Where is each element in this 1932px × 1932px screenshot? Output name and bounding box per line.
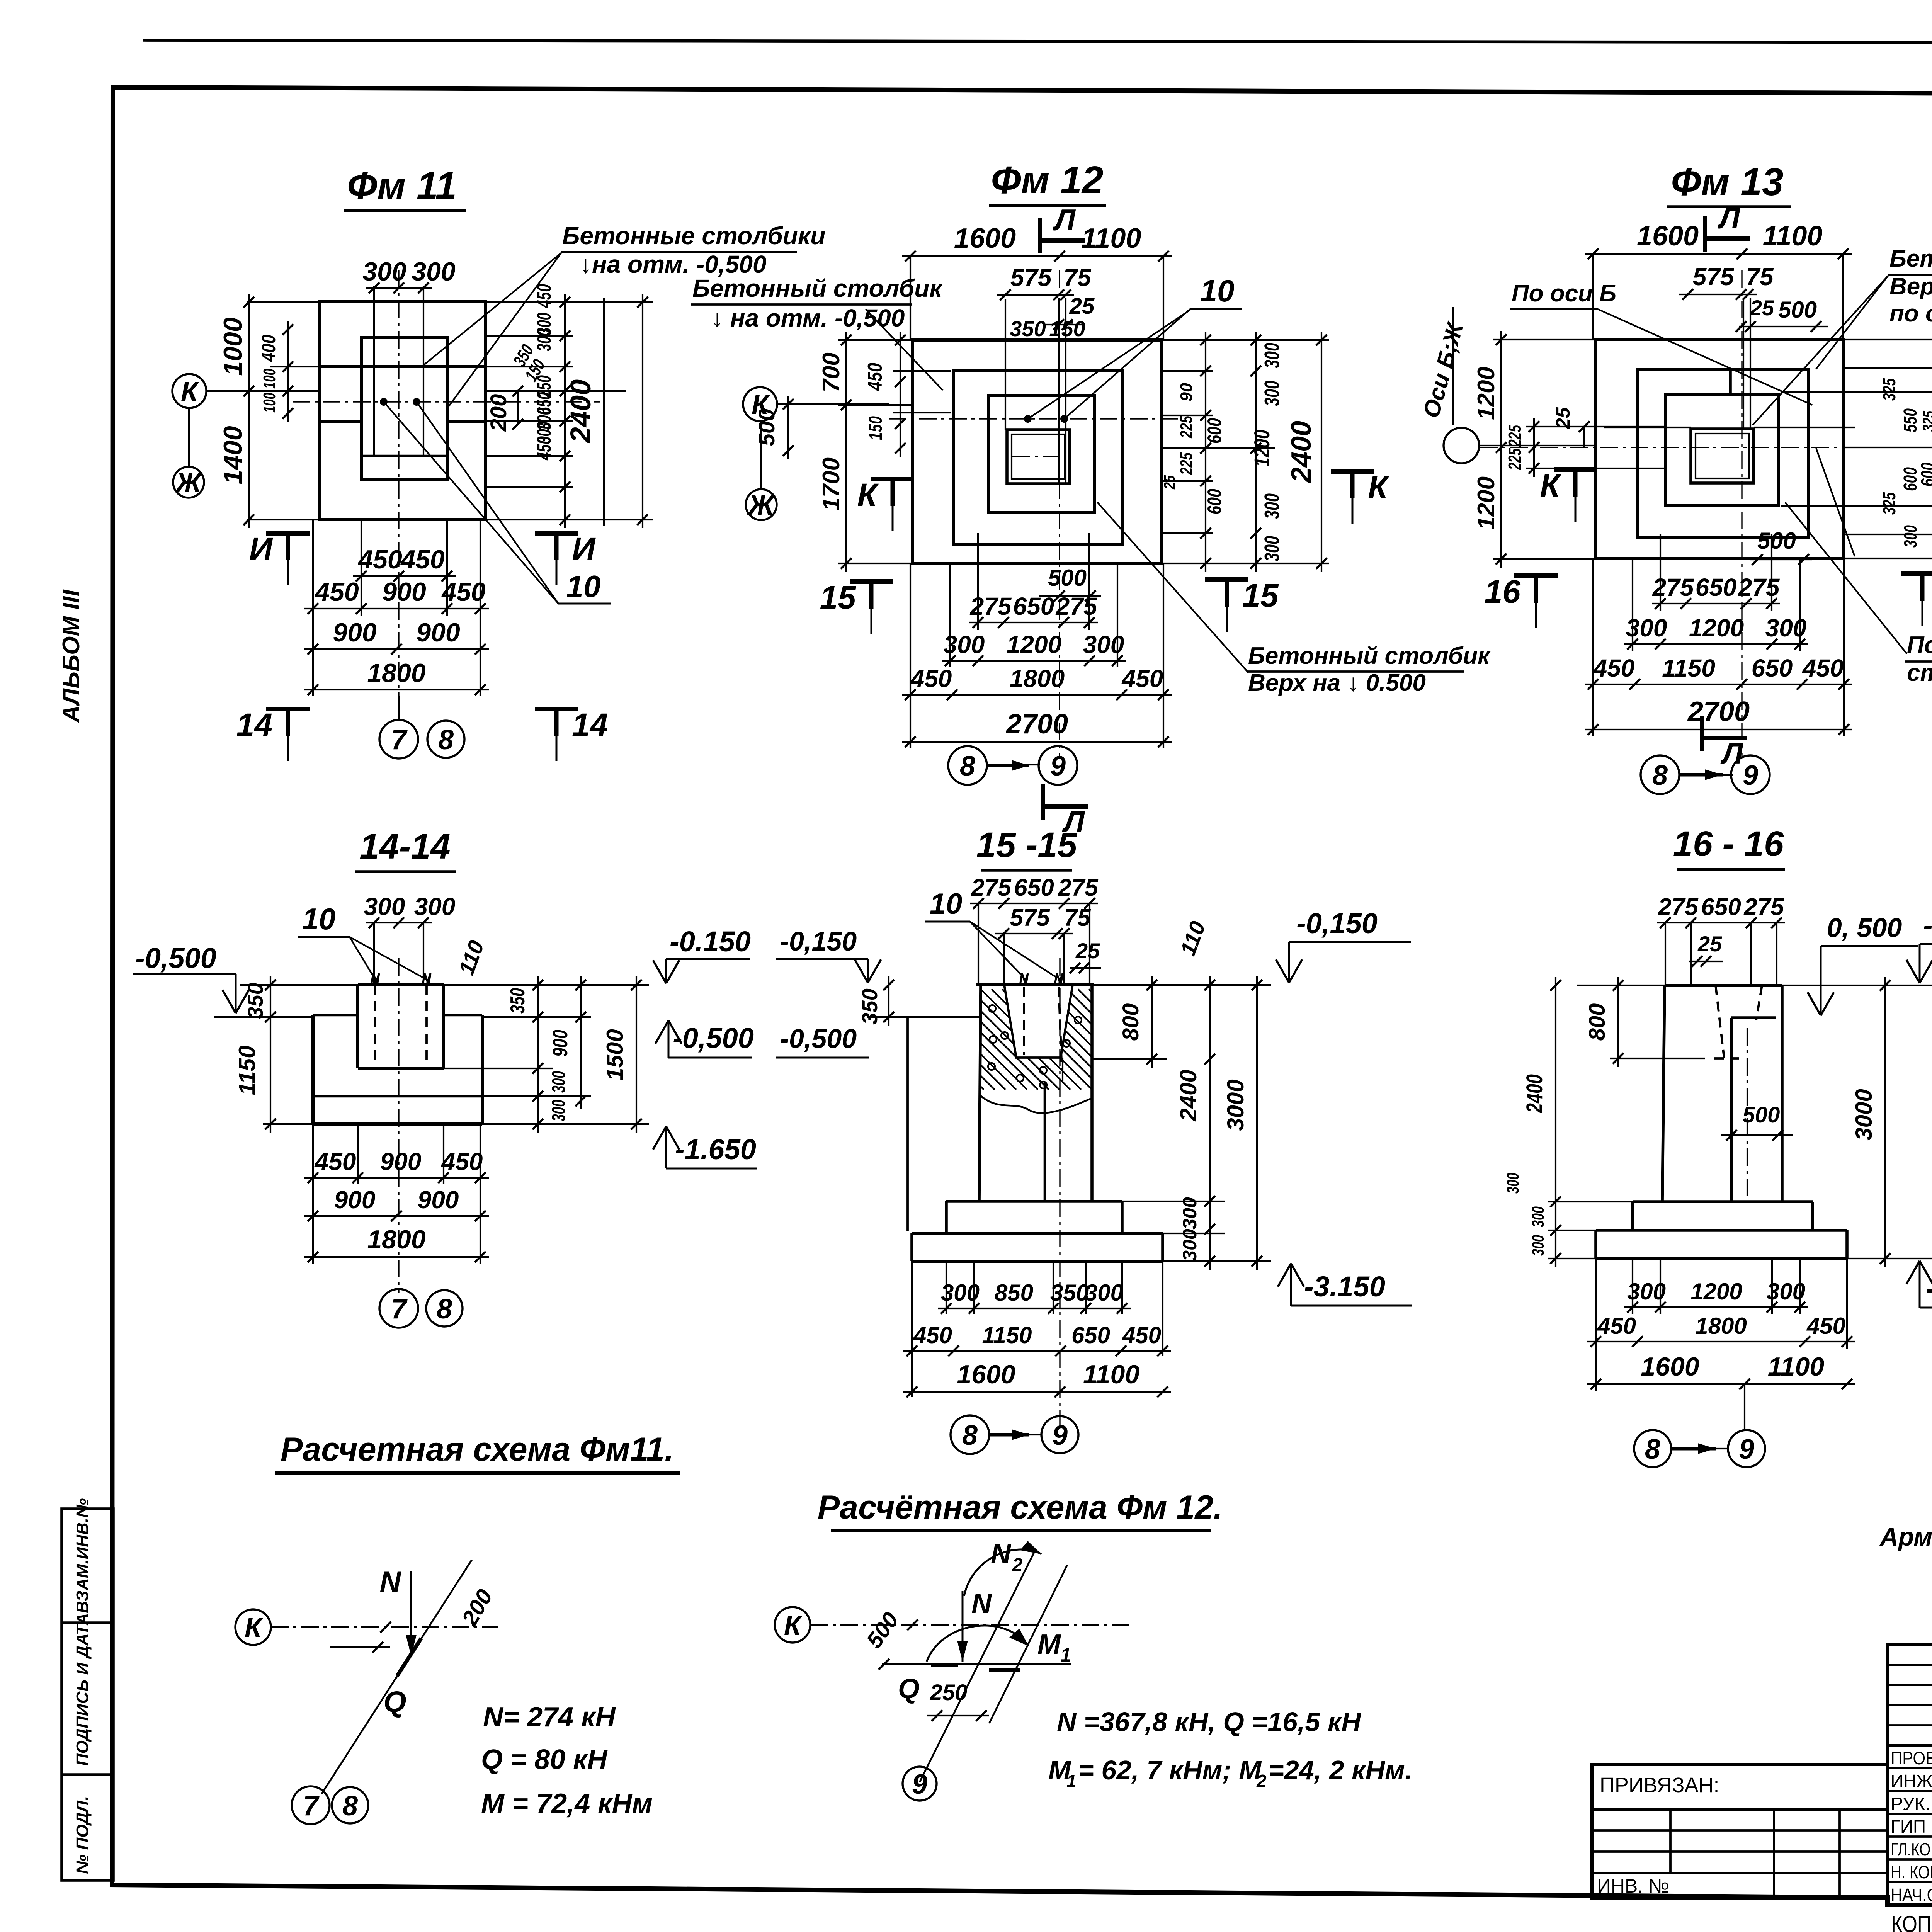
FM13 axis 8 9 [1641,755,1679,794]
svg-text:300: 300 [1529,1206,1548,1227]
svg-text:М: М [1037,1629,1061,1660]
S16 center vline [1744,1384,1745,1430]
svg-text:1150: 1150 [234,1045,260,1095]
svg-text:450: 450 [1121,665,1163,692]
svg-text:N: N [380,1566,402,1599]
svg-text:8: 8 [1645,1434,1660,1465]
S15 top line [976,983,1094,986]
svg-text:225: 225 [1505,448,1525,470]
svg-text:-1.650: -1.650 [675,1133,756,1165]
FM11 mark 14 right [535,707,578,711]
SC12 N arrow [962,1591,964,1662]
svg-text:1100: 1100 [1768,1352,1824,1381]
svg-text:300: 300 [1765,614,1807,642]
svg-text:1: 1 [1066,1771,1077,1791]
svg-text:300: 300 [362,257,406,286]
svg-text:НАЧ.ОТД: НАЧ.ОТД [1891,1885,1932,1905]
S14 left ext [240,984,358,986]
svg-text:ПОДПИСЬ И ДАТА: ПОДПИСЬ И ДАТА [73,1613,92,1766]
svg-text:1800: 1800 [1695,1313,1747,1339]
svg-text:Расчетная схема Фм11.: Расчетная схема Фм11. [281,1431,674,1468]
svg-text:450: 450 [533,436,555,461]
S16 dim top [1657,922,1785,923]
svg-text:75: 75 [1064,905,1091,931]
S15 dim row b3 [903,1391,1171,1393]
S15 dim row t2 [995,933,1073,934]
FM11 dim left 1000 1400 [248,294,250,528]
S15 dim 300s [1209,1193,1211,1270]
FM11 bolt dot 2 [413,398,420,406]
FM11 dim row4 1800 [304,689,489,690]
svg-text:Н. КОНТР: Н. КОНТР [1891,1862,1932,1882]
svg-text:И: И [572,531,596,567]
S14 ledge [313,1014,358,1017]
svg-text:1150: 1150 [1662,654,1715,682]
svg-text:ПРИВЯЗАН:: ПРИВЯЗАН: [1600,1774,1719,1797]
svg-text:300: 300 [533,329,555,351]
S15 hatch dots [988,1005,1082,1088]
FM11 outer rect [319,302,486,520]
S14 slab line [313,1095,482,1098]
svg-text:2400: 2400 [1522,1074,1547,1113]
S14 dim row2 [304,1215,489,1217]
FM12 bolt dot 1 [1024,415,1032,423]
FM12 mark K right [1331,469,1374,474]
svg-text:300: 300 [1900,525,1920,548]
svg-text:300: 300 [1626,614,1667,642]
FM11 right ext lines [486,301,653,303]
svg-text:450: 450 [913,1322,952,1348]
svg-text:300: 300 [364,893,405,920]
FM13 dim top 1600 1100 [1585,253,1852,255]
S16 right ext [1782,985,1932,986]
FM13 note leaders [1753,276,1888,425]
svg-text:Q: Q [898,1673,920,1704]
svg-text:25: 25 [1075,939,1100,963]
S14 axis 7 8 [379,1289,418,1328]
svg-text:-3.150: -3.150 [1304,1270,1385,1303]
svg-text:И: И [249,531,273,567]
S15 dim row b1 [938,1308,1131,1309]
svg-text:8: 8 [1652,760,1668,791]
svg-text:=24, 2 кНм.: =24, 2 кНм. [1268,1755,1412,1785]
svg-text:-0,500: -0,500 [780,1024,857,1054]
svg-text:300: 300 [1260,536,1284,561]
svg-text:Бетонный столбик: Бетонный столбик [692,274,943,302]
svg-text:К: К [857,477,879,513]
S15 right ext [1092,984,1271,986]
svg-text:К: К [181,376,200,407]
svg-text:325: 325 [1879,492,1899,515]
S14 right ext [444,984,649,986]
svg-text:8: 8 [962,1420,978,1451]
svg-text:столбик не выполнять: столбик не выполнять [1907,660,1932,686]
svg-text:25: 25 [1697,932,1722,956]
S15 dim 800 [1151,976,1153,1068]
svg-text:900: 900 [416,618,460,647]
S16 dim 800L [1617,977,1619,1067]
svg-text:200: 200 [486,394,511,432]
S16 pedestal [1731,1016,1776,1019]
svg-text:450: 450 [441,1148,483,1175]
svg-text:К: К [245,1612,264,1643]
svg-text:ИНВ. №: ИНВ. № [1597,1875,1669,1897]
svg-text:800: 800 [1118,1003,1143,1041]
svg-text:1000: 1000 [218,317,248,376]
svg-text:450: 450 [1122,1322,1161,1348]
svg-text:9: 9 [1050,751,1066,782]
FM11 dim row1 450 450 [353,575,456,577]
S15 rebar1 [1023,987,1025,1055]
FM13 L mark bottom [1700,716,1704,751]
svg-text:2: 2 [1256,1771,1267,1791]
S15 axis 8 9 [951,1415,989,1454]
FM12 bolt vlines [1058,298,1060,484]
FM12 bottom ext [910,563,911,748]
svg-text:300: 300 [412,257,456,286]
svg-text:900: 900 [334,1186,376,1214]
FM13 axis circle [1444,428,1479,463]
svg-text:300: 300 [549,1071,569,1093]
FM12 brace leader [1097,502,1248,672]
svg-text:225: 225 [1177,416,1196,439]
SC12 N2 arc [964,1549,1041,1596]
svg-text:16 - 16: 16 - 16 [1673,824,1784,864]
svg-text:575: 575 [1010,264,1052,291]
svg-text:450: 450 [1802,654,1844,682]
svg-text:450: 450 [441,577,486,607]
svg-text:7: 7 [391,1294,408,1325]
FM11 left ext lines [247,301,321,303]
svg-text:8: 8 [960,751,975,782]
S16 axis 8 9 [1634,1430,1671,1467]
FM11 mark I right [535,531,578,536]
S15 inner col [1044,1082,1046,1201]
FM11 bolt dot 1 [380,398,388,406]
privyazan box [1592,1764,1888,1809]
svg-text:225: 225 [1505,425,1525,447]
FM13 bottom ext [1592,558,1594,736]
svg-text:1200: 1200 [1007,631,1061,658]
svg-text:Q: Q [383,1685,406,1718]
SC11 axis 7 8 [292,1786,330,1824]
svg-text:25: 25 [1161,475,1178,489]
FM13 mark K left [1554,467,1597,472]
SC11 diagonal [321,1560,472,1794]
FM13 right ext [1843,339,1932,340]
svg-text:300: 300 [1260,343,1284,368]
svg-text:1: 1 [1060,1644,1071,1666]
FM12 right dim A [1205,332,1206,572]
svg-text:300: 300 [1179,1229,1201,1261]
svg-text:2700: 2700 [1687,696,1750,727]
S16 left ext2 [1548,1201,1633,1202]
svg-text:ГЛ.КОНТР: ГЛ.КОНТР [1891,1839,1932,1859]
svg-text:650: 650 [1013,592,1054,620]
svg-text:1600: 1600 [954,223,1016,254]
svg-text:500: 500 [1743,1102,1780,1128]
svg-text:10: 10 [930,888,963,920]
FM13 horiz centerline [1480,447,1862,448]
svg-text:350: 350 [1010,316,1046,341]
SC12 diagonals [920,1549,1036,1782]
FM11 right dim line A [564,294,566,528]
svg-text:1100: 1100 [1083,1360,1139,1389]
FM13 dim 575 75 [1679,294,1757,295]
svg-text:275: 275 [1738,573,1780,601]
FM12 dim row2 [942,660,1126,662]
svg-text:Бетонный столбик: Бетонный столбик [1248,643,1491,669]
FM11 bolt line 2 [423,286,424,456]
svg-text:75: 75 [1746,263,1774,291]
FM13 mark 16 left [1514,573,1558,578]
svg-text:325: 325 [1879,378,1899,401]
svg-text:1100: 1100 [1082,223,1141,254]
FM13 rect2 [1638,369,1808,538]
FM12 axis Zh [746,489,777,520]
S14 dim row1 [304,1177,489,1179]
svg-text:Верх на ↓ 0.500: Верх на ↓ 0.500 [1248,670,1426,696]
svg-text:10: 10 [1200,274,1235,308]
svg-text:По оси Б: По оси Б [1512,280,1616,307]
svg-text:300: 300 [549,1100,569,1121]
stamp small rows [1888,1664,1932,1666]
svg-text:Фм 11: Фм 11 [347,164,457,207]
svg-text:850: 850 [995,1280,1033,1306]
FM11 axis K [172,374,206,408]
svg-text:Л: Л [1720,736,1743,770]
SC12 ground marks [931,1664,958,1667]
svg-text:350: 350 [1050,1280,1089,1306]
FM12 dim row4 [902,741,1172,743]
svg-text:450: 450 [1806,1313,1845,1339]
SC12 M1 arc [927,1626,1029,1662]
svg-text:300: 300 [1179,1197,1201,1230]
FM11 dim 300 300 [366,287,432,289]
FM12 dim row3 [902,694,1172,696]
svg-text:Ж: Ж [747,490,776,521]
svg-text:275: 275 [1658,894,1699,920]
FM13 left dim 225 225 [1533,418,1535,477]
S14 right dim C [636,976,637,1133]
SC12 axis 9 [903,1767,937,1801]
FM12 horiz centerline [889,418,1179,419]
svg-text:3000: 3000 [1223,1079,1248,1131]
svg-text:300: 300 [1503,1173,1522,1194]
S14 inner line [358,1067,444,1070]
S15 pier sides [979,985,981,1201]
svg-text:600: 600 [1900,467,1921,491]
svg-text:9: 9 [1052,1420,1068,1451]
svg-text:450: 450 [1597,1313,1636,1339]
S14 bottom ext [312,1124,314,1264]
svg-text:КОПИРОВАЛ: ЛОГИНОВА: КОПИРОВАЛ: ЛОГИНОВА [1891,1911,1932,1932]
FM12 anchor sq [1007,430,1070,484]
svg-text:ВЗАМ.ИНВ.№: ВЗАМ.ИНВ.№ [73,1498,92,1613]
svg-text:2400: 2400 [1286,421,1317,483]
svg-text:8: 8 [438,724,454,755]
S16 dim row b2 [1587,1341,1855,1342]
svg-text:900: 900 [333,618,377,647]
S14 centerline [398,958,399,1293]
FM13 left ext [1493,339,1595,340]
svg-text:N =367,8 кН, Q =16,5 кН: N =367,8 кН, Q =16,5 кН [1057,1707,1361,1737]
S15 dim row b2 [903,1350,1171,1352]
S15 rebar2 [1059,987,1062,1070]
svg-text:300: 300 [1085,1280,1123,1306]
svg-text:14: 14 [236,707,272,743]
svg-text:-0,500: -0,500 [673,1022,754,1054]
svg-text:275: 275 [971,874,1012,901]
FM12 mark 15 right [1205,577,1248,582]
svg-text:Бетанный столбик: Бетанный столбик [1889,245,1932,272]
FM13 dim row4 [1585,729,1852,730]
svg-text:= 62, 7 кНм; М: = 62, 7 кНм; М [1078,1755,1262,1785]
svg-text:325: 325 [1919,411,1932,432]
svg-text:1200: 1200 [1250,430,1274,467]
FM13 note br leader [1785,502,1907,654]
FM11 band line bottom [361,455,447,457]
svg-text:300: 300 [1529,1235,1548,1256]
FM11 axis 7 8 [398,696,400,719]
FM12 L mark bottom [1041,784,1045,820]
S15 bottom ext [946,1261,947,1314]
svg-text:900: 900 [382,577,426,607]
FM12 axis K [743,387,777,421]
FM12 mark K left [871,477,914,481]
S16 slab [1596,1229,1847,1232]
svg-text:-0.150: -0.150 [670,925,751,957]
FM13 mark 16 right [1901,571,1932,576]
S16 bottom ext [1632,1259,1633,1314]
FM11 bolt line 1 [373,286,375,456]
S16 dim row b3 [1587,1383,1855,1385]
FM13 rect3 [1665,394,1778,505]
FM11 dim right 2400 [642,294,643,528]
S14 rebar 2 [425,985,428,1066]
S16 dim 3000R [1884,977,1886,1267]
FM11 mark I left [266,531,310,536]
svg-text:225: 225 [1177,452,1196,475]
svg-text:1600: 1600 [957,1360,1015,1389]
svg-text:250: 250 [930,1680,968,1705]
FM11 bottom ext lines [312,520,314,696]
S15 dim 3000 [1256,976,1258,1270]
FM11 dim row3 900 900 [304,648,489,650]
svg-text:1200: 1200 [1473,476,1500,530]
S14 left dim [270,976,271,1133]
FM13 dim row3 [1585,684,1852,685]
FM12 mark 15 left [850,579,893,584]
svg-text:600: 600 [1204,418,1225,444]
svg-text:15: 15 [820,579,857,616]
FM12 vert centerline [1059,270,1060,757]
FM13 vert centerline [1741,270,1742,757]
svg-text:1400: 1400 [218,426,248,484]
left stamp strip box [62,1509,113,1880]
lower table [1592,1809,1888,1898]
svg-text:ПРОВЕР.: ПРОВЕР. [1891,1748,1932,1768]
svg-text:300: 300 [1083,631,1124,658]
S15 pocket [1004,985,1073,1058]
svg-text:Расчётная схема Фм 12.: Расчётная схема Фм 12. [818,1489,1223,1526]
svg-text:ИНЖЕН.: ИНЖЕН. [1891,1771,1932,1791]
svg-text:Бетонные столбики: Бетонные столбики [562,222,825,250]
svg-text:450: 450 [314,577,359,607]
svg-text:АЛЬБОМ III: АЛЬБОМ III [58,589,85,723]
svg-text:2400: 2400 [565,379,597,444]
FM12 left ext lines [838,339,913,341]
svg-text:9: 9 [1743,760,1758,791]
svg-text:Ж: Ж [174,468,203,498]
svg-text:600: 600 [1204,489,1225,514]
FM13 dim row1 [1652,603,1780,604]
svg-text:1600: 1600 [1637,221,1699,252]
svg-text:15 -15: 15 -15 [976,825,1078,865]
S16 rebar2 [1756,985,1762,1020]
svg-text:900: 900 [418,1186,459,1214]
svg-text:150: 150 [866,416,886,440]
svg-text:1700: 1700 [818,457,845,511]
S14 column [356,985,359,1068]
FM13 bolt vlines [1743,298,1744,429]
SC11 axis K [235,1609,271,1645]
svg-text:7: 7 [391,724,408,755]
FM13 outer rect [1595,340,1843,558]
svg-text:650: 650 [1071,1322,1110,1348]
S16 step [1633,1200,1813,1203]
svg-text:N= 274 кН: N= 274 кН [483,1702,616,1733]
svg-text:0, 500: 0, 500 [1827,913,1902,943]
svg-text:550: 550 [1900,408,1921,432]
S15 dim 2400 [1209,976,1211,1210]
svg-text:650: 650 [1752,654,1793,682]
svg-text:300: 300 [1627,1279,1666,1304]
FM12 dim row1 [969,622,1098,623]
svg-text:ГИП: ГИП [1891,1816,1926,1837]
S15 dim row t1 [970,903,1098,904]
svg-text:1800: 1800 [1010,665,1065,692]
svg-text:350: 350 [507,988,529,1014]
svg-text:650: 650 [1014,874,1054,901]
S15 top ext lines [978,903,979,985]
S14 rebar 1 [374,985,376,1066]
svg-text:300: 300 [944,631,985,658]
S16 left ext [1577,985,1665,986]
FM12 note leader [866,309,943,390]
S15 break line [981,1096,1092,1113]
S16 dim 2400L [1555,977,1556,1267]
svg-text:450: 450 [400,545,445,574]
svg-text:3000: 3000 [1851,1089,1877,1140]
svg-text:25: 25 [1750,296,1774,320]
svg-text:275: 275 [1058,874,1099,901]
svg-text:650: 650 [1696,573,1737,601]
svg-text:14: 14 [572,707,608,743]
svg-text:1100: 1100 [1763,221,1823,252]
svg-text:1200: 1200 [1690,1279,1742,1304]
svg-text:16: 16 [1485,573,1521,610]
svg-text:90: 90 [1177,383,1196,401]
svg-text:-0,500: -0,500 [135,942,216,974]
svg-text:8: 8 [342,1791,358,1821]
svg-text:К: К [1540,467,1562,503]
svg-text:300: 300 [1260,493,1284,519]
FM12 right dim 2400 [1321,332,1322,572]
svg-text:Л: Л [1053,203,1076,237]
svg-text:Q = 80 кН: Q = 80 кН [481,1744,608,1775]
FM12 bolt dot 2 [1060,415,1068,423]
